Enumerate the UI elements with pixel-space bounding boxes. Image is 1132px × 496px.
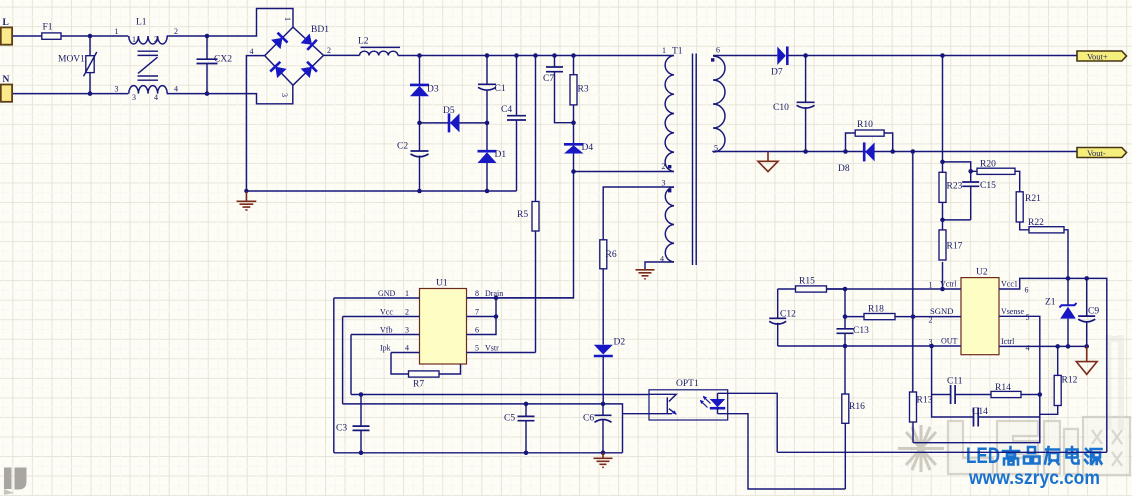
svg-text:D3: D3 — [427, 85, 439, 95]
resistor R20 — [971, 171, 1020, 192]
T1 secondary winding — [713, 56, 725, 152]
resistor R18 — [864, 314, 895, 320]
svg-text:3: 3 — [280, 93, 289, 97]
svg-text:L1: L1 — [136, 18, 147, 28]
junction pin1 R17 — [940, 287, 945, 292]
fuse F1 — [42, 33, 61, 39]
svg-text:5: 5 — [475, 344, 479, 353]
OPT1 led arrows — [701, 397, 711, 408]
resistor R22 — [1029, 227, 1064, 233]
zener Z1 — [1067, 278, 1069, 346]
capacitor C3 — [360, 395, 362, 453]
svg-text:1: 1 — [115, 27, 119, 36]
svg-text:C9: C9 — [1088, 307, 1099, 317]
svg-text:7: 7 — [475, 308, 479, 317]
svg-text:6: 6 — [1025, 286, 1029, 295]
capacitor C1 — [486, 56, 488, 123]
junction MOV1 bottom — [88, 91, 93, 96]
junction C5 bottom — [524, 451, 529, 456]
junction C3 top — [359, 392, 364, 397]
capacitor C6 — [602, 404, 604, 453]
svg-text:C12: C12 — [780, 310, 796, 320]
svg-text:Vstr: Vstr — [485, 344, 499, 353]
U1 pin7 — [467, 298, 497, 317]
wire L1 pin4 to bridge pin3 — [167, 85, 293, 104]
junction pin1 R15 node — [843, 287, 848, 292]
svg-text:C13: C13 — [853, 326, 869, 336]
junction R14 right — [1038, 392, 1043, 397]
T1 primary winding — [665, 56, 674, 172]
varistor MOV1 — [89, 36, 91, 94]
svg-text:R3: R3 — [578, 85, 589, 95]
svg-text:4: 4 — [250, 47, 254, 56]
ground T1 pin4 — [636, 270, 655, 279]
ground main — [594, 453, 613, 468]
U1 pin4 Ipk — [391, 352, 420, 354]
wire rail B — [777, 451, 1107, 453]
svg-text:C3: C3 — [336, 424, 347, 434]
wire N line — [13, 93, 128, 95]
port Vout- — [1077, 148, 1127, 158]
junction C6 top D2 — [601, 402, 606, 407]
resistor R10 — [846, 133, 893, 152]
svg-text:R12: R12 — [1062, 376, 1078, 386]
svg-text:Vfb: Vfb — [380, 326, 392, 335]
svg-text:4: 4 — [174, 85, 178, 94]
svg-text:R22: R22 — [1028, 218, 1044, 228]
watermark u bottom-left — [4, 468, 12, 490]
wire bridge pin4 to ground — [246, 56, 264, 191]
connector N — [1, 85, 12, 102]
svg-text:R5: R5 — [517, 210, 528, 220]
U1 pin3 Vfb — [351, 334, 420, 336]
junction snubber node — [571, 120, 576, 125]
wire L1 pin2 to bridge pin1 — [167, 9, 293, 37]
svg-text:1: 1 — [283, 17, 292, 21]
svg-text:Vcc1: Vcc1 — [1001, 280, 1018, 289]
junction Vcc1 Z1 — [1066, 276, 1071, 281]
svg-text:R15: R15 — [799, 277, 815, 287]
junction D1 bottom — [485, 189, 490, 194]
svg-text:3: 3 — [662, 179, 666, 188]
svg-text:R16: R16 — [849, 402, 865, 412]
junction DC- ground — [244, 189, 248, 193]
U1 pin5 Vstr — [467, 352, 536, 354]
svg-text:C7: C7 — [543, 74, 554, 84]
svg-text:5: 5 — [1026, 313, 1030, 322]
wire R15/C13 vertical — [844, 289, 846, 317]
diode D5 — [448, 113, 451, 132]
svg-text:R23: R23 — [947, 182, 963, 192]
BD1 diode bottom-left — [275, 67, 286, 79]
wire branch to R20/C15 — [943, 162, 971, 171]
junction CX2 bottom — [205, 91, 210, 96]
diode D2 — [594, 345, 613, 355]
svg-text:1: 1 — [929, 281, 933, 290]
resistor R14 — [991, 391, 1021, 397]
capacitor C15 — [970, 171, 972, 220]
ground input DC- — [237, 192, 257, 211]
junction Ictrl R12 — [1055, 344, 1060, 349]
resistor R6 — [600, 240, 607, 269]
resistor R23 — [939, 172, 946, 202]
svg-text:SGND: SGND — [930, 307, 954, 316]
svg-text:C14: C14 — [972, 407, 988, 417]
svg-text:U2: U2 — [976, 268, 988, 278]
capacitor C5 — [525, 404, 527, 453]
svg-text:Ictrl: Ictrl — [1001, 337, 1015, 346]
diode D3 — [419, 56, 421, 123]
svg-text:6: 6 — [716, 46, 720, 55]
wire T1 pin3 line — [603, 187, 674, 240]
svg-text:Vcc: Vcc — [380, 308, 393, 317]
diode D1 — [486, 123, 488, 191]
wire L line — [13, 35, 128, 37]
bridge rectifier BD1 — [250, 17, 332, 97]
junction C1 top — [485, 53, 490, 58]
IC U1 — [420, 289, 467, 365]
capacitor C11 — [932, 346, 991, 417]
svg-text:4: 4 — [405, 344, 409, 353]
svg-text:2: 2 — [154, 35, 158, 44]
svg-text:MOV1: MOV1 — [58, 55, 85, 65]
junction Vout+ R23 tap — [940, 53, 945, 58]
svg-text:R7: R7 — [413, 380, 424, 390]
wire ground rail A — [334, 452, 623, 454]
junction C3 bottom — [359, 451, 364, 456]
resistor R13 — [910, 392, 917, 422]
wire Vout- to R13 vertical — [912, 152, 914, 393]
junction C5 top — [524, 402, 529, 407]
U2 pin6 Vcc1 — [999, 278, 1107, 452]
svg-text:OPT1: OPT1 — [676, 379, 699, 389]
svg-text:1: 1 — [132, 35, 136, 44]
T1 core — [693, 54, 697, 266]
wire drain vertical — [467, 172, 574, 298]
capacitor C10 — [805, 56, 807, 152]
junction C6 bottom — [601, 451, 606, 456]
wire T1 pin5 / Vout- line — [713, 151, 1077, 154]
port Vout+ — [1077, 51, 1127, 61]
junction R20 left — [968, 169, 973, 174]
wire Vout+ line — [713, 55, 1077, 57]
svg-text:3: 3 — [405, 326, 409, 335]
U2 pin1 Vctrl — [827, 288, 962, 290]
junction R3 top — [571, 53, 576, 58]
wire Vout+ to R23 chain — [942, 56, 944, 290]
U1 pin6 — [467, 317, 497, 335]
svg-text:U1: U1 — [436, 279, 448, 289]
node line D3-D5-C1 — [420, 122, 488, 124]
svg-text:2: 2 — [327, 46, 331, 55]
svg-text:3: 3 — [115, 85, 119, 94]
wire DC+ rail — [324, 54, 675, 56]
junction SGND C13 — [843, 314, 848, 319]
junction CX2 top — [205, 34, 210, 39]
BD1 diode bottom-right — [301, 67, 312, 78]
capacitor C4 — [516, 56, 518, 192]
OPT1 led diode — [717, 393, 719, 399]
resistor R16 — [844, 346, 846, 489]
resistor R12 — [1040, 346, 1058, 414]
optocoupler OPT1 — [649, 390, 728, 420]
svg-text:D8: D8 — [838, 164, 850, 174]
resistor R3 — [573, 56, 575, 123]
ground secondary — [758, 152, 778, 172]
resistor R5 — [535, 56, 537, 353]
junction Vout- R13 tap — [911, 149, 916, 154]
OPT1 right top pin wire — [718, 393, 778, 452]
diode D8 — [863, 142, 866, 161]
svg-text:L2: L2 — [358, 37, 369, 47]
watermark logo gray — [896, 335, 1130, 476]
U2 pin2 SGND — [845, 316, 961, 318]
ground Ictrl — [1076, 346, 1097, 374]
OPT1 phototransistor — [666, 397, 668, 413]
junction MOV1 top — [88, 34, 93, 39]
svg-text:D7: D7 — [771, 68, 783, 78]
diode D4 — [573, 123, 575, 172]
junction R5 top — [533, 53, 538, 58]
svg-text:LED: LED — [966, 443, 1000, 468]
svg-text:N: N — [3, 75, 10, 85]
svg-text:C4: C4 — [501, 105, 512, 115]
capacitor C7 — [555, 56, 574, 123]
U2 pin4 Ictrl — [999, 345, 1087, 347]
junction Vcc1 C9 — [1084, 276, 1089, 281]
svg-text:R14: R14 — [995, 383, 1011, 393]
capacitor C12 — [777, 289, 779, 346]
svg-text:R13: R13 — [917, 396, 933, 406]
junction C10 bottom — [803, 149, 808, 154]
wire T1 pin2 line — [574, 171, 675, 173]
diode D7 — [777, 47, 786, 66]
U1 pin2 Vcc — [343, 316, 420, 318]
svg-text:Vout-: Vout- — [1087, 148, 1106, 158]
svg-text:D1: D1 — [495, 150, 507, 160]
wire GND vertical — [333, 298, 335, 453]
junction R10 left — [843, 149, 848, 154]
svg-text:F1: F1 — [43, 23, 53, 33]
svg-text:4: 4 — [1026, 344, 1030, 353]
capacitor C2 — [419, 123, 421, 191]
svg-text:1: 1 — [405, 289, 409, 298]
svg-text:R6: R6 — [606, 250, 617, 260]
T1 polarity dot pin2 — [668, 165, 671, 168]
resistor R21 — [1016, 192, 1023, 222]
junction R10 right — [890, 149, 895, 154]
resistor R7 — [409, 371, 440, 377]
svg-text:4: 4 — [154, 93, 158, 102]
svg-text:D4: D4 — [582, 143, 594, 153]
svg-text:C5: C5 — [504, 414, 515, 424]
svg-text:R21: R21 — [1025, 194, 1041, 204]
svg-text:Vout+: Vout+ — [1087, 52, 1108, 62]
svg-text:2: 2 — [929, 316, 933, 325]
resistor R17 — [939, 230, 946, 260]
svg-text:C1: C1 — [495, 84, 506, 94]
junction SGND R13vert — [911, 314, 916, 319]
svg-text:Ipk: Ipk — [380, 344, 391, 353]
svg-text:L: L — [3, 18, 9, 28]
IC U2 — [961, 278, 999, 355]
resistor R15 — [778, 288, 845, 290]
svg-text:Z1: Z1 — [1045, 298, 1056, 308]
junction Ictrl Z1 — [1066, 344, 1071, 349]
junction pin8 pin7 — [494, 296, 499, 301]
junction C2 bottom — [417, 189, 422, 194]
U2 pin3 OUT — [778, 345, 961, 347]
svg-text:R18: R18 — [868, 305, 884, 315]
T1 polarity dot pin6 — [711, 58, 714, 61]
wire Ipk jog — [391, 353, 409, 375]
transformer T1 — [660, 46, 725, 266]
svg-text:2: 2 — [662, 162, 666, 171]
svg-text:2: 2 — [405, 308, 409, 317]
U2 pin5 Vsense — [913, 316, 1040, 442]
T1 aux winding — [665, 187, 674, 262]
junction D3 top — [417, 53, 422, 58]
junction C10 top — [803, 53, 808, 58]
svg-text:C15: C15 — [980, 181, 996, 191]
svg-text:3: 3 — [132, 93, 136, 102]
wire T1 pin4 to ground — [645, 262, 674, 270]
OPT1 left top pin wire — [649, 394, 676, 401]
BD1 diode top-left — [271, 38, 282, 49]
junction R23 branch — [940, 160, 945, 165]
svg-text:1: 1 — [662, 46, 666, 55]
capacitor C13 — [844, 317, 846, 346]
svg-text:8: 8 — [475, 289, 479, 298]
T1 polarity dot pin3 — [668, 189, 671, 192]
svg-text:Vsense: Vsense — [1001, 307, 1024, 316]
wire Vfb vertical and line — [351, 335, 649, 395]
svg-text:6: 6 — [475, 326, 479, 335]
OPT1 right bottom pin wire — [718, 414, 846, 489]
U1 pin8 Drain — [467, 297, 574, 299]
capacitor C14 — [974, 408, 979, 427]
capacitor CX2 — [206, 36, 208, 94]
svg-text:D2: D2 — [614, 338, 626, 348]
svg-text:D5: D5 — [443, 106, 455, 116]
U1 pin1 GND — [334, 297, 420, 299]
junction R23 bottom — [940, 218, 945, 223]
BD1 diode top-right — [301, 34, 313, 45]
svg-text:C6: C6 — [583, 414, 594, 424]
junction OUT C11 branch — [929, 344, 934, 349]
svg-text:2: 2 — [174, 27, 178, 36]
junction drain node — [571, 169, 576, 174]
svg-text:GND: GND — [378, 289, 396, 298]
wire DC- rail — [246, 190, 516, 192]
connector L — [1, 27, 12, 44]
svg-text:R10: R10 — [857, 120, 873, 130]
junction C4 top — [514, 53, 519, 58]
OPT1 left bottom pin wire — [623, 413, 673, 415]
junction OUT C13/R16 — [843, 344, 848, 349]
junction C7 top — [552, 53, 557, 58]
svg-text:www.szryc.com: www.szryc.com — [968, 468, 1100, 489]
svg-text:R17: R17 — [947, 242, 963, 252]
capacitor C9 — [1086, 278, 1088, 346]
svg-text:BD1: BD1 — [311, 25, 329, 35]
wire Vcc vertical and line — [343, 317, 623, 453]
svg-text:C11: C11 — [947, 377, 963, 387]
svg-text:OUT: OUT — [941, 337, 958, 346]
svg-text:C10: C10 — [773, 103, 789, 113]
svg-text:R20: R20 — [980, 160, 996, 170]
svg-text:CX2: CX2 — [214, 55, 232, 65]
junction Ictrl C9 — [1084, 344, 1089, 349]
svg-text:C2: C2 — [397, 142, 408, 152]
